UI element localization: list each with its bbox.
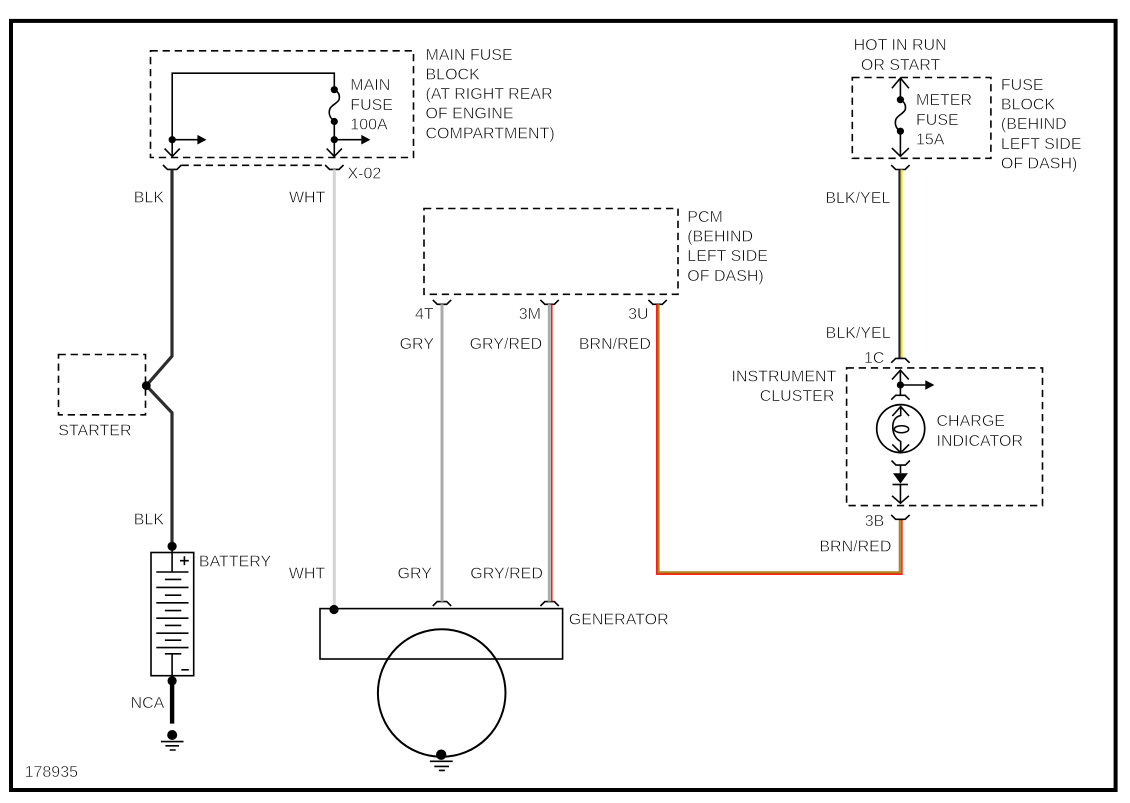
meter fuse top lead with up arrow [899, 78, 901, 100]
connector X-02 strip [182, 164, 326, 166]
connector cup 4T [433, 300, 451, 304]
node A pin dot left leg [169, 136, 176, 143]
diode lower lead with down arrow [899, 485, 901, 504]
battery plate short 3 [165, 610, 181, 612]
connector cup 3U [648, 300, 666, 304]
battery plate short 5 [165, 639, 181, 641]
node dot cluster pin [897, 381, 904, 388]
fuse block box right [852, 78, 991, 159]
svg-text:BLK/YEL: BLK/YEL [826, 325, 891, 342]
fuse METER FUSE 15A element [895, 100, 905, 132]
svg-text:GRY/RED: GRY/RED [470, 336, 543, 353]
wire BLK/YEL black part [898, 170, 900, 359]
connector X-02 cup right [325, 165, 343, 169]
PCM box [424, 209, 678, 295]
svg-text:X-02: X-02 [348, 166, 382, 183]
node dot fuse bottom [331, 118, 338, 125]
svg-text:NCA: NCA [131, 695, 165, 712]
svg-text:INDICATOR: INDICATOR [937, 433, 1024, 450]
svg-text:(BEHIND: (BEHIND [1001, 116, 1067, 133]
node B pin dot right leg [331, 136, 338, 143]
svg-text:MAIN: MAIN [350, 77, 390, 94]
wire GRY/RED gray part [548, 304, 551, 601]
svg-text:OR START: OR START [861, 57, 941, 74]
svg-text:BLK: BLK [134, 189, 165, 206]
wire BLK/YEL yellow stripe [901, 170, 903, 359]
battery positive stem [171, 549, 173, 572]
connector cup 3B [891, 515, 909, 519]
battery negative T bar [165, 654, 181, 678]
svg-text:178935: 178935 [25, 764, 78, 781]
fuse MAIN FUSE 100A element [329, 90, 339, 121]
generator box [320, 609, 563, 659]
cluster pin up arrow [899, 370, 901, 385]
svg-text:LEFT SIDE: LEFT SIDE [687, 248, 768, 265]
svg-text:(AT RIGHT REAR: (AT RIGHT REAR [426, 86, 553, 103]
svg-text:FUSE: FUSE [350, 97, 393, 114]
battery plate short 4 [165, 624, 181, 626]
ground G1 bars [161, 742, 184, 750]
svg-text:1C: 1C [864, 350, 884, 367]
svg-text:(BEHIND: (BEHIND [687, 229, 753, 246]
node dot battery negative [168, 676, 177, 685]
node dot meter fuse bottom [897, 128, 904, 135]
svg-text:COMPARTMENT): COMPARTMENT) [426, 125, 555, 142]
svg-text:GRY/RED: GRY/RED [470, 566, 543, 583]
svg-text:GENERATOR: GENERATOR [569, 611, 669, 628]
battery plate long 2 [156, 586, 188, 588]
svg-text:3M: 3M [519, 306, 541, 323]
internal pin arrow right [900, 384, 925, 386]
wire BRN/RED red stripe [657, 304, 902, 574]
wire WHT [333, 169, 336, 606]
lamp CHARGE INDICATOR circle [877, 405, 925, 453]
svg-text:CHARGE: CHARGE [937, 413, 1005, 430]
wire GRY [441, 304, 444, 601]
ground G1 dot [167, 730, 177, 740]
battery B1 case [151, 553, 194, 676]
svg-text:CLUSTER: CLUSTER [760, 388, 835, 405]
open arrowhead right leg [327, 149, 342, 157]
connector cup 3M [540, 300, 558, 304]
connector X-02 cup left [163, 165, 181, 169]
lamp top arrow [900, 407, 902, 416]
svg-text:BRN/RED: BRN/RED [579, 336, 651, 353]
svg-text:3B: 3B [865, 513, 885, 530]
svg-text:OF DASH): OF DASH) [687, 268, 763, 285]
svg-text:WHT: WHT [289, 566, 326, 583]
node dot generator B+ [329, 605, 338, 614]
main fuse block box [151, 51, 414, 158]
svg-text:3U: 3U [628, 306, 648, 323]
wire fuse lower lead [333, 122, 335, 157]
battery plus mark [180, 556, 189, 565]
svg-text:MAIN FUSE: MAIN FUSE [426, 47, 513, 64]
generator connector cup GRY [433, 602, 451, 606]
battery plate long 4 [156, 617, 188, 619]
ground G2 dot generator [436, 750, 446, 760]
svg-text:BATTERY: BATTERY [199, 553, 272, 570]
svg-text:OF DASH): OF DASH) [1001, 155, 1077, 172]
battery plate long 3 [156, 602, 188, 604]
diode D1 lead [900, 465, 902, 473]
starter box [59, 355, 146, 415]
generator circle [378, 629, 506, 757]
node dot fuse top [331, 86, 338, 93]
wire BRN/RED brown part [659, 304, 900, 572]
meter fuse bottom lead with down arrow [899, 131, 901, 156]
instrument cluster box [847, 368, 1043, 506]
svg-text:BLK: BLK [134, 512, 165, 529]
lamp bottom cup [892, 461, 910, 466]
svg-text:OF ENGINE: OF ENGINE [426, 106, 514, 123]
wire NCA ground lead [170, 684, 174, 724]
svg-text:STARTER: STARTER [58, 423, 131, 440]
svg-text:GRY: GRY [400, 336, 435, 353]
battery plate long 5 [156, 632, 188, 634]
svg-text:BLOCK: BLOCK [426, 67, 481, 84]
wire GRY/RED red stripe [551, 304, 553, 601]
svg-text:BRN/RED: BRN/RED [819, 538, 891, 555]
svg-text:FUSE: FUSE [1001, 77, 1044, 94]
svg-text:BLK/YEL: BLK/YEL [825, 190, 890, 207]
svg-text:100A: 100A [350, 116, 388, 133]
diode D1 [893, 473, 908, 483]
svg-text:PCM: PCM [687, 209, 723, 226]
wire BLK starter feed [146, 169, 172, 542]
svg-text:INSTRUMENT: INSTRUMENT [732, 368, 837, 385]
svg-text:FUSE: FUSE [916, 112, 959, 129]
battery plate short 1 [165, 578, 181, 580]
ground G2 bars [430, 761, 453, 770]
connector cup 1C [891, 358, 909, 362]
battery minus mark [181, 669, 189, 671]
cluster pin lower lead and flare [899, 385, 901, 395]
wire internal bus of main fuse block [172, 73, 334, 156]
battery plate long 1 [156, 571, 188, 573]
svg-text:15A: 15A [916, 131, 945, 148]
generator connector cup GRY/RED [540, 602, 558, 606]
svg-text:METER: METER [916, 92, 972, 109]
svg-text:BLOCK: BLOCK [1001, 97, 1056, 114]
connector cup below fuse block [891, 165, 909, 169]
node dot battery positive [168, 542, 177, 551]
svg-text:LEFT SIDE: LEFT SIDE [1001, 136, 1082, 153]
battery plate long 6 [156, 647, 188, 649]
battery plate short 2 [165, 594, 181, 596]
svg-text:GRY: GRY [398, 566, 433, 583]
svg-text:4T: 4T [415, 306, 434, 323]
lamp bottom arrow [900, 441, 902, 453]
internal pin arrow right [334, 139, 361, 141]
node dot starter terminal [142, 381, 151, 390]
open arrowhead left leg [165, 149, 180, 157]
node dot meter fuse top [897, 96, 904, 103]
internal pin arrow left [172, 139, 197, 141]
svg-text:WHT: WHT [289, 189, 326, 206]
lamp filament curl [893, 416, 901, 442]
svg-text:HOT IN RUN: HOT IN RUN [854, 37, 947, 54]
